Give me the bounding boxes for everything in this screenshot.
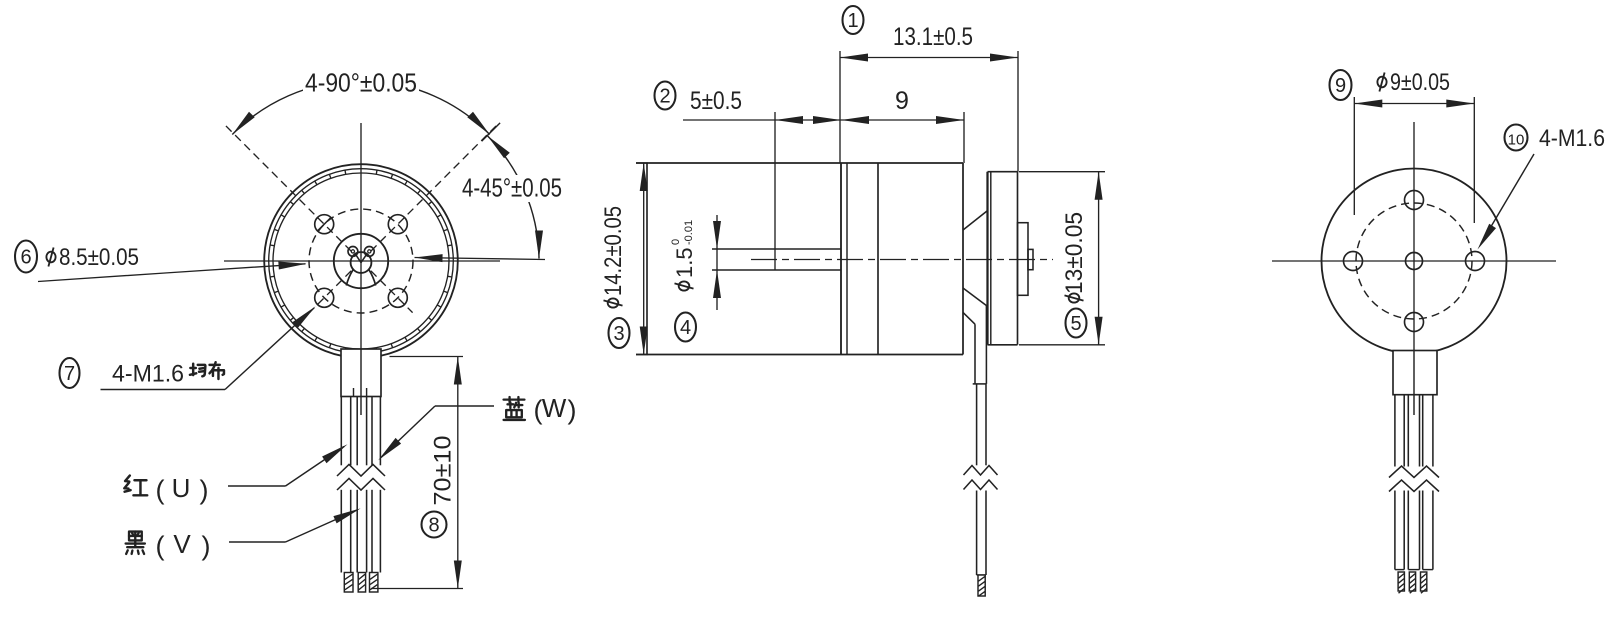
- svg-text:9±0.05: 9±0.05: [1390, 69, 1450, 96]
- callout 9 circle: [1330, 70, 1352, 100]
- svg-text:3: 3: [613, 323, 624, 345]
- label blue W: [504, 397, 525, 420]
- callout 4 circle: [675, 313, 696, 342]
- dimension 70 line: [457, 357, 459, 589]
- side view wire wide right edge: [985, 306, 987, 384]
- side view mounting face line A: [840, 163, 842, 355]
- dimension phi1.5 line: [716, 215, 718, 310]
- svg-text:13.1±0.5: 13.1±0.5: [893, 23, 973, 51]
- back view center hole: [1406, 253, 1423, 270]
- label phi8.5: [46, 248, 55, 267]
- svg-text:2: 2: [659, 86, 670, 108]
- svg-text:9: 9: [895, 87, 909, 115]
- front view wire break symbol: [337, 465, 385, 491]
- callout 1 circle: [843, 6, 864, 34]
- svg-text:): ): [568, 395, 577, 425]
- label phi1.5 with tolerance: [670, 220, 697, 291]
- callout 3 circle: [609, 318, 630, 348]
- front view centerline through stem: [360, 349, 362, 415]
- dimension 9 line: [841, 119, 964, 121]
- dimension 9 extension line: [963, 112, 965, 163]
- label phi9: [1377, 73, 1386, 92]
- svg-text:(: (: [156, 531, 165, 561]
- side view connector tab inner: [1028, 249, 1033, 269]
- dimension phi9 extension lines: [1353, 97, 1355, 215]
- leader blue W: [435, 405, 494, 407]
- side view back disc top edge: [988, 171, 1018, 173]
- dimension 5 line: [683, 119, 841, 121]
- side view rotor-to-disc flare bottom: [963, 288, 987, 306]
- side view back disc left face: [986, 172, 988, 345]
- back view vertical centerline: [1413, 122, 1415, 352]
- svg-text:5: 5: [1070, 313, 1081, 335]
- front view rim middle circle: [269, 169, 454, 354]
- front view rim knurl ticks: [270, 170, 452, 352]
- front view rim outer circle: [264, 164, 458, 358]
- front view left ear circle: [348, 247, 358, 257]
- leader black V: [229, 541, 286, 543]
- side view wire break symbol: [964, 466, 998, 490]
- svg-text:7: 7: [64, 363, 75, 385]
- front view rim inner circle: [273, 173, 449, 349]
- side view body bottom edge: [636, 354, 963, 356]
- svg-text:): ): [202, 531, 211, 561]
- svg-text:4: 4: [680, 317, 691, 339]
- svg-text:6: 6: [20, 247, 31, 269]
- side view internal line: [877, 163, 879, 355]
- callout 7 circle: [60, 358, 80, 388]
- back view 4x M1.6 screw holes: [1344, 191, 1485, 332]
- svg-text:): ): [200, 475, 209, 505]
- label red U: [124, 476, 147, 496]
- dimension 70 extension lines: [390, 356, 464, 358]
- svg-text:1.5: 1.5: [672, 247, 697, 278]
- front view horizontal centerline: [224, 260, 500, 262]
- front view bolt circle (dashed): [309, 209, 413, 313]
- label 4-45deg: [460, 175, 564, 202]
- svg-text:70±10: 70±10: [430, 436, 457, 506]
- front view hub legs: [346, 270, 353, 286]
- svg-text:4-45°±0.05: 4-45°±0.05: [462, 173, 562, 203]
- svg-text:13±0.05: 13±0.05: [1061, 212, 1088, 294]
- side view mounting face line B: [846, 163, 848, 355]
- side view wire jog: [973, 383, 987, 385]
- back view lead-wire stem: [1393, 351, 1437, 395]
- side view rotor right edge: [962, 163, 964, 355]
- svg-text:9: 9: [1335, 75, 1346, 97]
- back view outer circle: [1322, 169, 1507, 354]
- svg-text:U: U: [172, 473, 191, 503]
- dimension phi13 extension lines: [1019, 171, 1105, 173]
- svg-text:0: 0: [670, 239, 682, 245]
- dimension phi13 line: [1098, 172, 1100, 345]
- callout 6 circle: [15, 241, 37, 273]
- side view body left edge: [646, 163, 648, 355]
- side view wire lower section: [976, 491, 978, 576]
- svg-text:4-M1.6: 4-M1.6: [112, 361, 184, 388]
- svg-text:4-90°±0.05: 4-90°±0.05: [305, 68, 417, 98]
- front view right ear circle: [364, 247, 374, 257]
- back view stripped wire tips: [1398, 572, 1427, 593]
- side view wire narrow section: [976, 384, 978, 465]
- label phi14.2: [600, 206, 627, 308]
- callout 10 circle: [1505, 125, 1528, 151]
- front view lead-wire stem: [341, 349, 381, 397]
- front view wire stubs in stem: [353, 388, 355, 397]
- svg-text:(: (: [156, 475, 165, 505]
- dimension 13.1 extension lines: [839, 51, 841, 163]
- svg-text:14.2±0.05: 14.2±0.05: [600, 206, 627, 296]
- radial stub at arc crossing: [482, 123, 501, 141]
- side view back disc bottom edge: [988, 344, 1018, 346]
- svg-text:-0.01: -0.01: [683, 220, 695, 245]
- back view horizontal centerline: [1272, 260, 1556, 262]
- dimension phi14.2 extension: [636, 162, 648, 164]
- front view vertical centerline: [360, 123, 362, 349]
- back view three lead wires: [1395, 395, 1433, 570]
- front view shaft boss circle: [334, 234, 388, 288]
- label black V: [126, 532, 145, 554]
- side view shaft outline: [712, 248, 841, 250]
- svg-text:1: 1: [847, 10, 858, 32]
- label 4-90deg: [303, 70, 419, 97]
- leader red U: [228, 485, 286, 487]
- front view top-left hole cross mark: [318, 218, 331, 231]
- side view stripped wire tip: [978, 575, 985, 596]
- front view 4x M1.6 screw holes: [315, 215, 408, 308]
- front view 45-degree dashed radial lines: [222, 122, 499, 312]
- front view hub V notch: [355, 253, 361, 262]
- front view stripped wire tips: [344, 573, 378, 593]
- side view connector tab outer: [1018, 223, 1029, 296]
- callout 8 circle: [422, 512, 447, 538]
- dimension 5 extension line: [774, 112, 776, 270]
- dimension arc 4-90deg: [232, 81, 489, 135]
- side view axis centerline: [751, 259, 1053, 261]
- back view wire break symbol: [1389, 466, 1439, 492]
- side view wire wide left edge: [974, 324, 976, 384]
- leader 4-M1.6: [101, 389, 226, 391]
- svg-text:8: 8: [428, 515, 439, 537]
- back view bolt circle (dashed): [1356, 203, 1472, 319]
- leader phi8.5 left: [38, 264, 306, 282]
- front view three lead wires: [341, 397, 380, 573]
- leader 4-M1.6 back: [1481, 154, 1534, 244]
- callout 2 circle: [655, 82, 676, 110]
- svg-text:4-M1.6: 4-M1.6: [1539, 125, 1605, 152]
- front view shaft hole circle: [351, 252, 372, 273]
- svg-text:5±0.5: 5±0.5: [690, 87, 742, 115]
- dimension arc 4-45deg: [487, 136, 539, 259]
- svg-text:W: W: [542, 393, 567, 423]
- dimension phi14.2 line: [643, 163, 645, 355]
- dimension phi9 line: [1354, 103, 1474, 105]
- leader phi8.5 right: [415, 258, 546, 260]
- side view back disc right face: [1017, 172, 1019, 345]
- svg-text:10: 10: [1508, 132, 1525, 149]
- svg-text:V: V: [173, 529, 191, 559]
- dimension 13.1 line: [840, 57, 1018, 59]
- callout 5 circle: [1066, 309, 1087, 338]
- back view centerline through stem: [1413, 351, 1415, 416]
- side view wire channel upper edge: [963, 312, 975, 324]
- svg-text:8.5±0.05: 8.5±0.05: [59, 244, 139, 271]
- label phi13: [1061, 212, 1088, 303]
- side view body top edge: [636, 162, 963, 164]
- side view rotor-to-disc flare top: [963, 211, 987, 230]
